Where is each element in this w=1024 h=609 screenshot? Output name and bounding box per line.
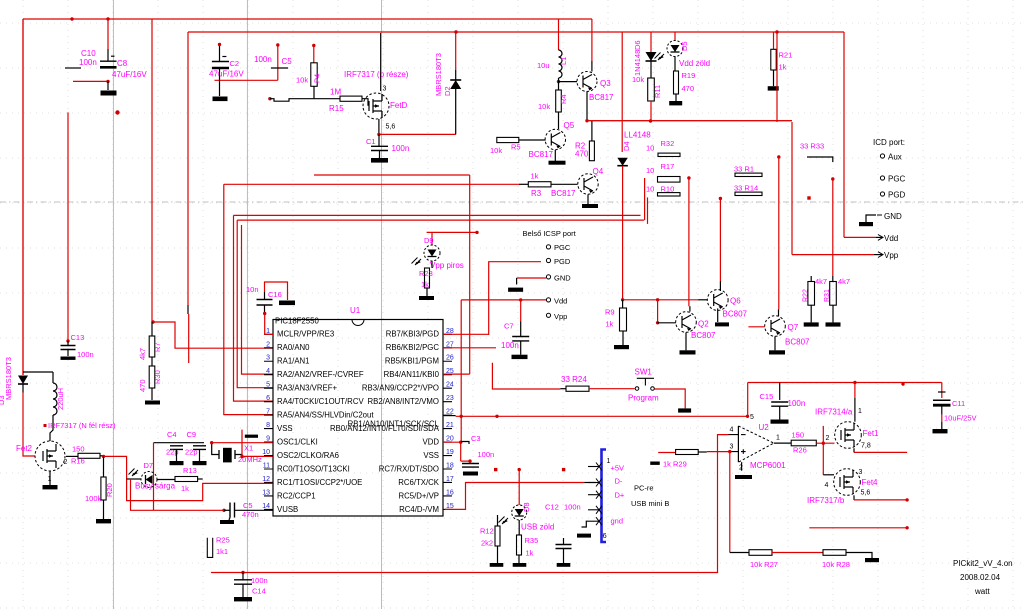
svg-text:R19: R19 [682,71,696,80]
wire Q7 collector lead [778,310,780,317]
net stub [115,110,119,114]
junction [222,509,225,512]
wire Fet1 source [853,448,855,452]
LED D5 [667,41,683,57]
capacitor C1 [371,146,388,150]
svg-text:LL4148: LL4148 [624,131,651,140]
svg-text:7,8: 7,8 [861,443,871,450]
wire Fet1 out [854,451,907,453]
svg-text:7: 7 [266,409,270,416]
wire Fet4 source [853,495,855,500]
svg-text:100n: 100n [79,58,97,67]
svg-text:Q4: Q4 [593,167,604,176]
svg-text:9: 9 [266,436,270,443]
wire C7 gnd [520,341,522,355]
svg-text:1k: 1k [531,172,539,181]
resistor R13 [175,477,198,482]
wire LED9 top [431,232,433,245]
resistor R15 [340,96,362,101]
wire R17 drop [644,178,646,220]
junction [777,155,780,158]
svg-text:Fet4: Fet4 [862,478,879,487]
svg-text:220uH: 220uH [56,388,65,410]
wire D6-R11 [650,61,652,78]
wire X1 left [212,443,219,455]
wire ICSP gnd drop [516,278,518,285]
resistor R25 [207,538,212,558]
svg-text:100n: 100n [392,144,410,153]
wire C8 top [107,19,109,49]
junction [151,320,154,323]
svg-text:5: 5 [750,414,754,421]
wire C12 gnd [563,549,565,564]
resistor R14 [735,192,762,195]
wire R35 gnd [518,555,520,563]
net stub [218,43,221,46]
junction C13 [66,339,69,342]
wire R23 gnd [426,288,428,296]
wire C2 bottom [219,68,221,80]
svg-text:C13: C13 [71,333,85,342]
svg-text:GND: GND [554,274,571,283]
wire C11 lead [941,406,943,415]
svg-text:150: 150 [792,431,805,440]
wire D8-R35 [518,520,520,535]
svg-text:10k R28: 10k R28 [822,560,850,569]
bar [715,322,729,326]
svg-text:MBRS180T3: MBRS180T3 [4,357,13,400]
stub [443,415,456,417]
ground [96,519,111,523]
wire C8 lead [107,49,109,61]
svg-text:10: 10 [646,166,654,175]
wire FetD top [380,33,382,91]
svg-text:1: 1 [858,408,862,415]
svg-text:RC6/TX/CK: RC6/TX/CK [398,478,440,487]
capacitor C3 [462,464,479,468]
transistor Q5 [545,129,565,149]
wire C8 junction [73,80,108,82]
resistor R1 [735,173,762,176]
wire R20 top [103,456,105,477]
resistor R4 [556,90,562,112]
wire rail y121 [587,120,792,122]
polarity mark [222,56,226,58]
svg-text:100n: 100n [77,350,94,359]
svg-text:1k: 1k [181,484,189,493]
svg-text:R30: R30 [153,370,162,384]
junction [102,455,105,458]
wire Q2 collector lead [689,306,691,311]
svg-text:1k: 1k [526,549,534,558]
wire C5b left [224,509,230,511]
svg-text:100n: 100n [478,450,495,459]
svg-text:5,6: 5,6 [861,490,871,497]
svg-text:1k1: 1k1 [216,547,228,556]
wire C11 red [941,415,943,422]
svg-text:2k2: 2k2 [481,539,493,548]
svg-text:470: 470 [682,84,695,93]
wire Q6 emitter [717,308,719,322]
terminal ICD PGD [880,192,884,196]
wire D5-R19 [674,57,676,72]
wire D4 top [621,32,623,152]
wire Q7 base [748,326,764,328]
junction [656,321,659,324]
junction [518,468,521,471]
wire PGD [489,262,541,335]
LED D7 [141,472,157,488]
svg-text:R31: R31 [824,289,831,302]
svg-text:10k: 10k [490,146,502,155]
wire P4 top [313,46,315,63]
wire Q3 base [559,78,578,82]
svg-text:USB zöld: USB zöld [521,523,554,532]
svg-text:21: 21 [446,422,454,429]
svg-text:D+: D+ [615,491,625,500]
svg-text:C14: C14 [252,587,266,596]
capacitor C16 [257,300,273,306]
svg-text:47uF/16V: 47uF/16V [112,70,147,79]
svg-text:C3: C3 [471,434,481,443]
svg-text:R23: R23 [419,269,433,278]
wire U2 vss [741,462,743,471]
resistor R7 4k7 [149,336,155,357]
ground [512,355,528,359]
svg-text:Program: Program [628,394,659,403]
wire C12 top [563,538,565,544]
resistor R19 [674,71,679,94]
terminal Aux [880,154,884,158]
wire left rail [22,19,24,375]
wire X1 up [241,430,243,457]
wire C2 net [215,79,278,81]
svg-text:17: 17 [446,476,454,483]
svg-text:10: 10 [646,185,654,194]
svg-text:4k7: 4k7 [138,348,147,360]
wire Q2 base lead [658,322,676,324]
svg-text:ICD port:: ICD port: [873,138,905,147]
wire Q6 collector lead [719,281,721,291]
junction [70,17,73,20]
svg-text:RC4/D-/VM: RC4/D-/VM [399,505,439,514]
svg-text:RB3/AN9/CCP2*/VPO: RB3/AN9/CCP2*/VPO [362,384,439,393]
wire second rail [188,31,844,33]
polarity [938,391,946,393]
svg-text:C11: C11 [952,399,965,408]
switch SW1 [635,387,639,391]
svg-text:R16: R16 [71,457,85,466]
wire Q2 collector [688,178,690,306]
svg-text:Busy sárga: Busy sárga [135,482,176,491]
transistor Fet2 [35,441,65,471]
bar [804,322,819,326]
svg-text:10k: 10k [538,102,550,111]
wire C13 lead [67,341,69,356]
capacitor C8 [100,60,117,62]
wire C1 gnd [379,151,381,159]
wire VUSB net [131,479,225,510]
resistor R5 [497,137,519,142]
svg-text:D6: D6 [633,40,642,50]
wire x777 drop [776,32,778,122]
svg-text:C15: C15 [760,392,774,401]
svg-text:RA0/AN0: RA0/AN0 [277,343,310,352]
bar [735,475,752,479]
junction [822,442,825,445]
wire R16 right [100,455,104,457]
wire x153 drop [153,443,155,511]
wire R16 left [66,455,78,457]
svg-text:U2: U2 [759,423,770,432]
wire D6 top [650,32,652,52]
wire D3 top [22,19,24,375]
wire Q3 collector [591,19,593,61]
resistor R35 [517,535,522,555]
svg-text:RB2/AN8/INT2/VMO: RB2/AN8/INT2/VMO [368,397,440,406]
svg-text:R12: R12 [480,527,494,536]
terminal Vdd [546,298,550,302]
svg-text:RC2/CCP1: RC2/CCP1 [277,491,316,500]
wire Q3 collector lead [591,61,593,72]
LED arrows [412,258,422,266]
svg-text:R7: R7 [153,342,162,352]
ground [859,222,873,226]
resistor R28 [823,550,846,556]
wire R15 left [270,99,340,102]
wire Vpp drop [791,122,793,255]
wire R7 leads [151,322,153,366]
svg-text:R17: R17 [661,162,675,171]
wire R9 top [622,300,624,308]
svg-text:11: 11 [263,463,270,470]
wire D5 top [674,32,676,41]
svg-text:RC0/T1OSO/T13CKI: RC0/T1OSO/T13CKI [277,464,350,473]
wire Fet1 lead [854,398,856,422]
junction [621,298,624,301]
LED arrows [655,53,665,61]
wire Q4 emitter [587,194,589,204]
wire SW-gnd [655,389,686,408]
svg-text:Q3: Q3 [600,79,611,88]
junction [377,133,380,136]
svg-text:X1: X1 [244,444,253,453]
IC pin stubs [264,334,452,509]
resistor R21 [771,49,776,70]
ground [213,97,228,102]
ground [769,350,785,354]
svg-text:C1: C1 [366,137,376,146]
wire C1 net [379,133,456,135]
wire R21 bottom [773,70,775,86]
svg-text:RC1/T1OSI/CCP2*/UOE: RC1/T1OSI/CCP2*/UOE [277,478,362,487]
wire C2 gnd lead [219,80,221,96]
ground [419,296,434,300]
ground [680,350,696,354]
svg-text:Q2: Q2 [698,320,709,329]
wire Q5 emitter [554,150,556,161]
diode D2 [450,80,461,89]
wire R31 top lead [832,276,834,282]
capacitor C12 [556,545,572,549]
wire Q7 collector [778,157,780,310]
junction [557,80,560,83]
svg-text:RB1/AN10/INT1/SCK/SCL: RB1/AN10/INT1/SCK/SCL [348,419,440,428]
junction [649,119,652,122]
junction [459,441,462,444]
svg-text:1N4148: 1N4148 [633,50,642,76]
ground [279,301,295,306]
wire minus drop [718,435,729,573]
red mark [562,468,565,471]
resistor R24 [566,386,589,391]
bar [826,322,841,326]
resistor R29 [676,450,699,455]
wire R29 left [658,452,675,454]
wire R27-R28 [772,552,823,554]
USB connector J1 [602,450,607,543]
wire FetD bottom [378,119,380,134]
wire D7 lead [127,478,141,480]
svg-text:2008.02.04: 2008.02.04 [960,573,1001,582]
svg-text:10k: 10k [632,75,644,84]
terminal ICD PGC [880,176,884,180]
svg-text:470n: 470n [242,510,259,519]
transistor Q7 [765,316,786,337]
wire D3 bottom [22,384,24,393]
svg-text:FetD: FetD [390,101,408,110]
wire gate tie [822,426,824,475]
svg-text:USB mini B: USB mini B [631,499,669,508]
svg-text:4k7: 4k7 [815,277,827,286]
svg-text:D5: D5 [680,41,689,51]
wire C5b right [235,509,273,511]
capacitor C9 [193,446,206,450]
terminal Vpp [546,313,550,317]
wire C9 gnd lead [199,449,201,461]
wire PGC pin27 [443,347,496,349]
svg-text:RB6/KBI2/PGC: RB6/KBI2/PGC [386,343,440,352]
svg-text:33 R14: 33 R14 [734,184,758,193]
svg-text:5,6: 5,6 [386,124,396,131]
wire x470 [469,175,471,374]
USB pins [588,463,602,526]
svg-text:1k: 1k [779,63,787,72]
svg-text:GND: GND [884,212,902,221]
svg-text:IRF7317/b: IRF7317/b [807,496,845,505]
svg-text:D4: D4 [622,141,631,151]
resistor R12 [495,526,500,546]
IC pin names [277,330,440,514]
wire R22 top lead [810,276,812,282]
wire R20 bottom [103,500,105,519]
svg-text:6: 6 [266,395,270,402]
svg-text:24: 24 [446,382,454,389]
wire bottom rail [211,572,718,574]
junction [901,382,904,385]
svg-text:100n: 100n [254,55,272,64]
terminal Vpp lead [874,254,882,256]
svg-text:R35: R35 [525,536,539,545]
svg-text:R21: R21 [779,51,793,60]
svg-text:C4: C4 [167,430,177,439]
wire Fet1 drain top [854,383,856,399]
svg-text:C5: C5 [243,501,253,510]
svg-text:1k R29: 1k R29 [663,460,687,469]
ground [463,472,478,476]
wire cap top rail [154,442,205,444]
wire R13 right [198,478,203,480]
svg-text:MBRS180T3: MBRS180T3 [434,53,443,96]
polarity mark [111,55,115,57]
junction [106,17,109,20]
svg-text:PGC: PGC [554,243,571,252]
capacitor C11 [933,399,951,401]
diode D3 [18,376,28,385]
svg-text:22: 22 [446,409,454,416]
ground [865,558,879,562]
wire +5 to op5 [747,383,749,417]
svg-text:4: 4 [730,427,734,434]
wire Vpp to ICD [792,254,874,256]
svg-text:MCP6001: MCP6001 [750,461,786,470]
wire R24 net [492,363,560,389]
svg-text:RC5/D+/VP: RC5/D+/VP [398,491,439,500]
svg-text:R3: R3 [531,189,542,198]
junction [495,415,498,418]
wire Fet4 gate [823,474,834,476]
svg-text:PC-re: PC-re [634,484,654,493]
svg-text:150: 150 [72,445,85,454]
ground [371,158,388,163]
transistor Q3 [577,72,597,92]
wire plus drop [729,452,731,553]
svg-text:PGC: PGC [888,175,906,184]
svg-text:Aux: Aux [888,153,902,162]
svg-text:Vdd: Vdd [554,297,567,306]
svg-text:C9: C9 [187,430,197,439]
svg-text:18: 18 [446,463,454,470]
svg-text:470: 470 [138,379,147,392]
ground [513,563,527,567]
svg-text:1k: 1k [606,320,614,329]
wire Q7 emitter [774,336,776,350]
wire R12 top [497,515,499,526]
terminal GND arrow [866,215,876,222]
svg-text:100n: 100n [501,341,519,350]
svg-text:14: 14 [262,503,270,510]
wire bus MCLR-net [153,322,273,348]
IC pin numbers [262,328,454,510]
resistor R32 [658,153,680,156]
wire Vdd ICSP [461,299,546,301]
wire R24 leads [560,388,566,390]
svg-text:R5: R5 [511,143,521,152]
ground [771,420,789,424]
svg-text:Vdd: Vdd [884,234,898,243]
wire bus x241.5 [242,225,273,374]
wire busy net [104,456,273,500]
svg-text:33 R33: 33 R33 [800,142,824,151]
svg-text:R11: R11 [653,85,662,98]
svg-text:IRF7317 (N fél rész): IRF7317 (N fél rész) [48,421,116,430]
svg-text:VSS: VSS [423,451,439,460]
wire PGD pin28 [443,333,489,335]
wire R26-gate [816,442,834,444]
junction [460,415,463,418]
svg-text:watt: watt [974,587,990,596]
svg-text:3: 3 [383,86,387,93]
